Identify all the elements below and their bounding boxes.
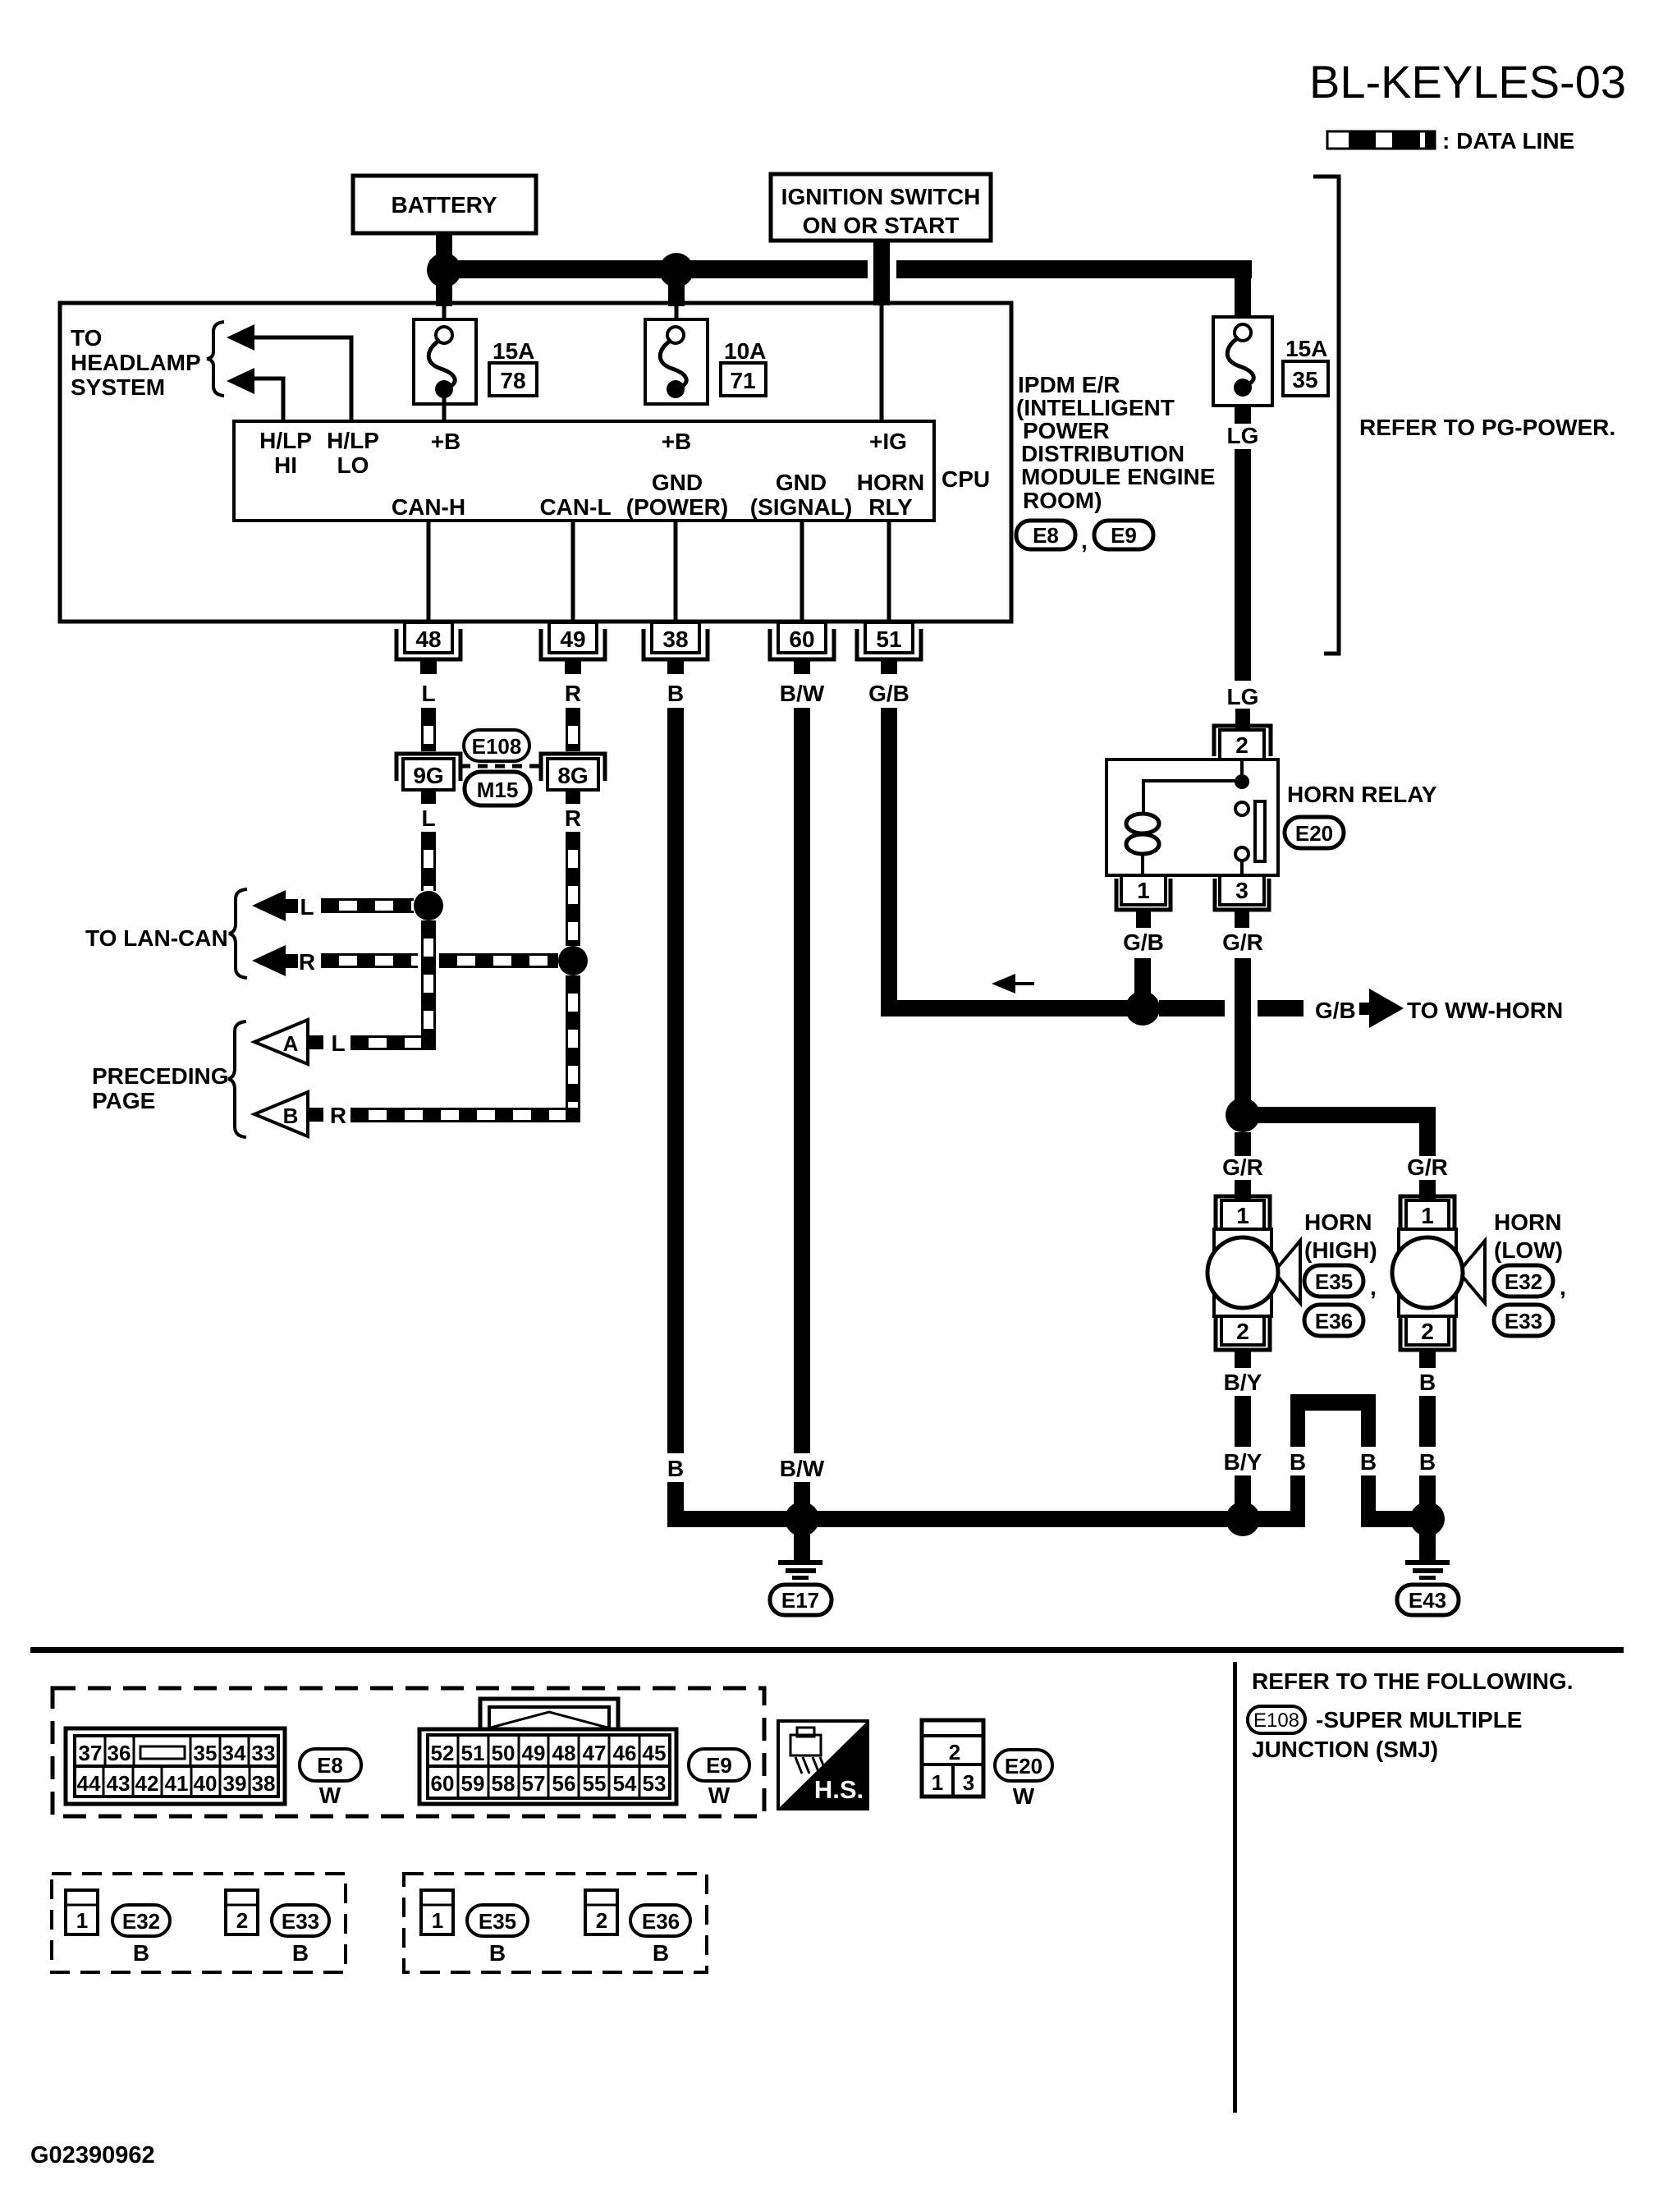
svg-text:36: 36 <box>108 1741 131 1765</box>
wire: H/LP HI lead <box>254 379 283 421</box>
svg-text:H/LP: H/LP <box>327 428 379 453</box>
wire: ignition switch stub <box>873 239 890 305</box>
wire: fuse 78 top lead <box>442 305 447 322</box>
svg-text:G/R: G/R <box>1222 1154 1263 1180</box>
svg-text:HORN: HORN <box>857 470 924 495</box>
connector face E9 <box>419 1699 676 1804</box>
wire: LG down to relay <box>1235 449 1251 681</box>
wire: CAN-H lead inside box <box>427 521 431 622</box>
svg-text:PRECEDING: PRECEDING <box>92 1063 228 1089</box>
connector oval E32 <box>1494 1265 1566 1300</box>
pin 38 connector <box>644 622 708 674</box>
svg-text:2: 2 <box>1236 1319 1249 1344</box>
svg-text:43: 43 <box>107 1771 131 1796</box>
junction dot at fuse 71 feed <box>659 253 694 287</box>
connector 8G <box>541 754 605 804</box>
svg-text:B: B <box>667 681 684 706</box>
svg-text:B: B <box>292 1940 309 1966</box>
label SUPER MULTIPLE JUNCTION <box>1252 1707 1522 1762</box>
svg-text:B/Y: B/Y <box>1224 1370 1262 1395</box>
svg-text:R: R <box>299 949 315 975</box>
fuse 15A 78 <box>414 319 476 404</box>
separator rule <box>30 1647 1624 1653</box>
label PRECEDING PAGE <box>92 1063 228 1113</box>
connector face E36 pin 2 <box>585 1890 617 1934</box>
svg-text:R: R <box>565 805 581 831</box>
svg-text:(INTELLIGENT: (INTELLIGENT <box>1016 395 1175 420</box>
connector oval E20 <box>1285 817 1344 848</box>
svg-text:2: 2 <box>1235 732 1249 758</box>
connector oval E33 (face) <box>272 1905 329 1966</box>
svg-text:REFER TO THE FOLLOWING.: REFER TO THE FOLLOWING. <box>1252 1668 1573 1694</box>
svg-text:B/Y: B/Y <box>1224 1449 1262 1475</box>
svg-text:W: W <box>708 1783 731 1808</box>
dashed SMJ link <box>460 764 545 769</box>
wire: main power bus horizontal <box>444 260 1252 278</box>
svg-text:E20: E20 <box>1295 821 1333 846</box>
wire: power bus corner down to fuse 35 <box>1235 260 1251 319</box>
wire: G/B toward WW-HORN segment 1 <box>1159 1000 1225 1017</box>
connector oval E33 <box>1494 1305 1553 1336</box>
connector oval E108 (note) <box>1248 1706 1305 1733</box>
junction dot G/B <box>1125 991 1160 1026</box>
wire: data line B-R <box>351 1109 569 1122</box>
svg-text:3: 3 <box>963 1770 974 1795</box>
svg-text:E108: E108 <box>1253 1709 1299 1732</box>
wire: GND POWER lead inside box <box>674 521 678 622</box>
pin 51 connector <box>857 622 921 674</box>
svg-text:1: 1 <box>1137 878 1150 903</box>
CPU inner box <box>234 421 934 521</box>
relay internal: common lead and dot <box>1143 760 1249 814</box>
svg-text:+IG: +IG <box>869 429 907 454</box>
svg-text:DISTRIBUTION: DISTRIBUTION <box>1021 441 1184 466</box>
svg-text:49: 49 <box>560 626 585 652</box>
svg-text:R: R <box>330 1103 346 1128</box>
connector triangle B <box>254 1092 323 1136</box>
connector oval E35 <box>1304 1265 1377 1300</box>
relay pin 2 connector <box>1214 726 1271 760</box>
svg-text:CAN-H: CAN-H <box>392 494 465 520</box>
svg-text:54: 54 <box>613 1771 637 1796</box>
arrow to LAN-CAN L <box>252 890 298 921</box>
svg-text:56: 56 <box>552 1771 576 1796</box>
svg-text:60: 60 <box>789 626 814 652</box>
svg-text:BATTERY: BATTERY <box>391 192 497 218</box>
connector oval E8 (face) <box>300 1749 361 1808</box>
value box 78 <box>489 363 537 396</box>
connector face E8 <box>66 1728 285 1804</box>
svg-text:49: 49 <box>522 1741 546 1765</box>
svg-text:CPU: CPU <box>942 466 990 492</box>
wire: CAN-H data segment below junction <box>423 920 435 1049</box>
H.S. view logo <box>778 1721 868 1809</box>
svg-text:B/W: B/W <box>780 1456 825 1481</box>
arrow to headlamp (upper) <box>227 324 254 351</box>
brace TO LAN-CAN <box>229 889 247 978</box>
arrow to WW-HORN <box>1359 989 1404 1028</box>
wire: B corner segment <box>667 1482 684 1527</box>
wire: data line L to junction <box>321 900 414 912</box>
svg-text:(LOW): (LOW) <box>1494 1237 1563 1263</box>
wire: LG stub into relay pin 2 <box>1235 709 1250 730</box>
svg-text:HI: HI <box>274 452 297 478</box>
svg-text:B: B <box>1419 1449 1436 1475</box>
svg-text:44: 44 <box>77 1771 101 1796</box>
connector oval E36 (face) <box>630 1905 690 1966</box>
IPDM E/R outer box <box>60 303 1011 622</box>
svg-text:+B: +B <box>662 429 692 454</box>
wire: G/R branch horizontal <box>1235 1107 1436 1123</box>
connector oval E20 (face) <box>995 1750 1052 1809</box>
pin 49 connector <box>541 622 605 674</box>
connector 9G <box>396 754 460 804</box>
svg-text:59: 59 <box>461 1771 485 1796</box>
svg-text:E9: E9 <box>706 1753 732 1778</box>
svg-text:B: B <box>1419 1370 1436 1395</box>
relay coil <box>1126 814 1159 875</box>
wire: G/B horizontal to junction <box>881 1000 1143 1017</box>
svg-text:58: 58 <box>492 1771 515 1796</box>
svg-text:,: , <box>1370 1274 1377 1300</box>
arrow to headlamp (lower) <box>227 368 254 394</box>
pin 48 connector <box>396 622 460 674</box>
svg-text:E17: E17 <box>781 1588 819 1613</box>
label HORN (LOW) <box>1494 1209 1563 1263</box>
wire: fuse 35 output stub <box>1235 406 1251 424</box>
svg-text:E108: E108 <box>472 734 522 759</box>
ground E43 <box>1397 1527 1459 1615</box>
svg-text:15A: 15A <box>1285 336 1327 361</box>
corner block CAN-H <box>421 1035 436 1050</box>
junction dot B/W ground <box>785 1502 819 1536</box>
svg-text:35: 35 <box>1292 367 1317 392</box>
svg-text:1: 1 <box>432 1908 443 1933</box>
svg-text:G/B: G/B <box>1123 929 1164 955</box>
svg-text:G/R: G/R <box>1222 929 1263 955</box>
svg-text:ROOM): ROOM) <box>1023 488 1102 513</box>
dashed box E35/E36 <box>404 1874 707 1972</box>
svg-text:2: 2 <box>236 1908 248 1933</box>
brace PRECEDING PAGE <box>228 1021 246 1137</box>
svg-text:HEADLAMP: HEADLAMP <box>71 350 201 375</box>
svg-text:M15: M15 <box>477 778 519 802</box>
horn low body <box>1392 1229 1485 1316</box>
wire: ignition thin lead to +IG <box>880 305 884 421</box>
wire: G/B from pin 51 down <box>881 708 897 1017</box>
junction dot CAN-L <box>558 946 588 975</box>
svg-text:W: W <box>1013 1783 1035 1809</box>
svg-text:1: 1 <box>76 1908 88 1933</box>
svg-text:E32: E32 <box>1505 1269 1542 1294</box>
connector face E35 pin 1 <box>421 1890 453 1934</box>
pin label HORN RLY <box>857 470 924 520</box>
svg-text:(POWER): (POWER) <box>626 494 728 520</box>
horn high pin 1 connector <box>1216 1196 1270 1229</box>
wire: B from pin 38 down <box>667 708 684 1453</box>
wire: data line R segment 2 <box>439 955 558 967</box>
wire: G/R down to branch dot <box>1235 958 1251 1107</box>
wire: HORN RLY lead inside box <box>887 521 891 622</box>
svg-text:B: B <box>653 1940 669 1966</box>
svg-text:E36: E36 <box>1315 1309 1353 1333</box>
svg-text:37: 37 <box>79 1741 103 1765</box>
value box 35 <box>1283 361 1328 396</box>
horn high body <box>1207 1229 1300 1316</box>
svg-text:-SUPER MULTIPLE: -SUPER MULTIPLE <box>1316 1707 1522 1732</box>
pin label GND (SIGNAL) <box>750 470 852 520</box>
svg-text:B: B <box>1360 1449 1377 1475</box>
svg-text:G/R: G/R <box>1407 1154 1448 1180</box>
svg-text:SYSTEM: SYSTEM <box>71 374 165 400</box>
svg-text:ON OR START: ON OR START <box>803 213 960 238</box>
pin 60 connector <box>770 622 834 674</box>
junction dot CAN-H <box>414 891 443 920</box>
horn low pin 2 connector <box>1400 1316 1455 1368</box>
svg-text:E20: E20 <box>1005 1754 1042 1778</box>
wire: CAN-L data segment below junction <box>567 975 580 1122</box>
svg-text:B/W: B/W <box>780 681 825 706</box>
pin label H/LP HI <box>259 428 312 478</box>
svg-text:55: 55 <box>583 1771 607 1796</box>
ground E17 <box>770 1527 832 1615</box>
svg-text:B: B <box>1290 1449 1306 1475</box>
wire: CAN-L data segment to junction <box>567 832 580 946</box>
svg-text:IPDM E/R: IPDM E/R <box>1018 372 1120 397</box>
svg-text:RLY: RLY <box>868 494 913 520</box>
wire: fuse 71 top lead <box>675 305 679 322</box>
svg-text:BL-KEYLES-03: BL-KEYLES-03 <box>1309 56 1626 108</box>
connector oval M15 <box>465 772 530 805</box>
wire: G/R right corner down <box>1419 1123 1436 1156</box>
svg-text:POWER: POWER <box>1023 418 1110 443</box>
svg-text:48: 48 <box>415 626 441 652</box>
legend: data line sample <box>1327 128 1574 154</box>
label TO HEADLAMP SYSTEM <box>71 325 201 400</box>
wire: horn high B/Y to bus <box>1235 1475 1251 1515</box>
svg-text:E33: E33 <box>1505 1309 1542 1333</box>
svg-text:E8: E8 <box>1033 523 1059 548</box>
svg-text:R: R <box>565 681 581 706</box>
svg-text:38: 38 <box>252 1771 276 1796</box>
wire: ground bus horizontal <box>667 1511 1436 1527</box>
svg-text:PAGE: PAGE <box>92 1088 155 1113</box>
svg-text:CAN-L: CAN-L <box>539 494 611 520</box>
connector face E20 <box>922 1720 983 1797</box>
svg-text:40: 40 <box>194 1771 218 1796</box>
wire: data line R segment 1 <box>321 955 418 967</box>
connector face E33 pin 2 <box>226 1890 258 1934</box>
svg-text:45: 45 <box>643 1741 667 1765</box>
dashed box E32/E33 <box>52 1874 346 1972</box>
svg-text:H/LP: H/LP <box>259 428 312 453</box>
wire: fuse 78 bottom lead <box>442 397 447 421</box>
svg-text:B: B <box>667 1456 684 1481</box>
bracket refer to PG-POWER <box>1313 177 1339 654</box>
svg-text:2: 2 <box>596 1908 607 1933</box>
connector oval E108 <box>464 730 529 761</box>
wire: B/W from pin 60 down <box>794 708 810 1453</box>
wire: fuse 71 feed stub <box>668 278 685 306</box>
svg-text:+B: +B <box>431 429 461 454</box>
svg-text:LG: LG <box>1227 423 1259 448</box>
connector oval E8 (annotation) <box>1016 521 1088 553</box>
connector oval E35 (face) <box>467 1905 528 1966</box>
wire: bridge hop <box>1290 1394 1376 1515</box>
svg-text:IGNITION SWITCH: IGNITION SWITCH <box>781 184 981 209</box>
wire: data line A-L <box>351 1037 424 1049</box>
arrow to LAN-CAN R <box>252 945 298 976</box>
svg-text:B: B <box>133 1940 149 1966</box>
svg-text:A: A <box>283 1031 299 1056</box>
svg-text:L: L <box>331 1030 345 1056</box>
wire: GND SIGNAL lead inside box <box>800 521 804 622</box>
svg-text:41: 41 <box>165 1771 189 1796</box>
svg-text:B: B <box>489 1940 506 1966</box>
svg-text:MODULE ENGINE: MODULE ENGINE <box>1021 464 1215 489</box>
svg-text:JUNCTION (SMJ): JUNCTION (SMJ) <box>1252 1737 1438 1762</box>
connector oval E36 <box>1304 1305 1363 1336</box>
svg-text:1: 1 <box>932 1770 943 1795</box>
value box 71 <box>721 363 766 396</box>
svg-text:E8: E8 <box>317 1753 343 1778</box>
svg-text:51: 51 <box>461 1741 485 1765</box>
wire: relay pin1 G/B to junction <box>1134 958 1151 1008</box>
ignition switch box <box>771 174 991 241</box>
vertical divider <box>1233 1662 1237 2113</box>
svg-text:HORN: HORN <box>1494 1209 1561 1235</box>
wire: CAN-L data segment to 8G <box>567 708 580 751</box>
connector triangle A <box>254 1020 323 1064</box>
svg-text:42: 42 <box>135 1771 159 1796</box>
wire: B/W lower segment <box>794 1482 810 1507</box>
wire: fuse 78 feed stub <box>436 278 452 306</box>
wire: G/R into horn low <box>1419 1180 1436 1200</box>
horn high pin 2 connector <box>1216 1316 1270 1368</box>
dashed box E8/E9 <box>53 1688 764 1816</box>
svg-text:1: 1 <box>1236 1203 1249 1228</box>
svg-text:L: L <box>300 894 314 920</box>
label IPDM E/R block <box>1016 372 1215 513</box>
svg-text:G/B: G/B <box>868 681 909 706</box>
connector oval E9 (annotation) <box>1094 521 1153 549</box>
svg-text:53: 53 <box>643 1771 667 1796</box>
svg-text:35: 35 <box>194 1741 218 1765</box>
svg-text:34: 34 <box>222 1741 246 1765</box>
junction dot B bus <box>1410 1502 1445 1536</box>
svg-text:HORN: HORN <box>1304 1209 1372 1235</box>
svg-text:,: , <box>1081 528 1088 553</box>
svg-text:46: 46 <box>613 1741 637 1765</box>
horn relay box E20 <box>1106 760 1278 875</box>
wire: CAN-H data segment to junction <box>423 832 435 891</box>
wire: CAN-L lead inside box <box>571 521 575 622</box>
wire: horn low B to bus <box>1419 1475 1436 1515</box>
svg-text:10A: 10A <box>724 338 766 364</box>
svg-text:39: 39 <box>223 1771 247 1796</box>
wire: H/LP LO lead <box>254 337 351 421</box>
svg-text:L: L <box>421 681 435 706</box>
svg-text:HORN RELAY: HORN RELAY <box>1287 782 1437 807</box>
wire: G/B toward WW-HORN segment 2 <box>1258 1000 1303 1017</box>
svg-text:33: 33 <box>252 1741 276 1765</box>
junction dot G/R branch <box>1226 1098 1260 1132</box>
svg-text:E36: E36 <box>642 1909 680 1934</box>
corner block CAN-L <box>566 1108 580 1122</box>
wire: CAN-H data segment to 9G <box>423 708 435 751</box>
svg-text:TO LAN-CAN: TO LAN-CAN <box>85 925 228 951</box>
svg-text:E32: E32 <box>122 1909 160 1934</box>
junction dot at battery feed <box>427 253 461 287</box>
wire: horn low B segment <box>1419 1396 1436 1447</box>
relay contact <box>1235 801 1265 875</box>
connector face E32 pin 1 <box>66 1890 98 1934</box>
relay pin 3 connector <box>1215 875 1269 928</box>
svg-text:47: 47 <box>583 1741 607 1765</box>
svg-text:: DATA LINE: : DATA LINE <box>1442 128 1574 154</box>
svg-text:B: B <box>283 1104 299 1128</box>
wire: battery stub <box>436 232 452 264</box>
svg-text:GND: GND <box>776 470 827 495</box>
svg-text:48: 48 <box>552 1741 576 1765</box>
horn low pin 1 connector <box>1400 1196 1455 1229</box>
svg-text:78: 78 <box>500 368 525 393</box>
svg-text:51: 51 <box>876 626 901 652</box>
svg-text:9G: 9G <box>413 763 443 788</box>
svg-text:E9: E9 <box>1111 523 1137 548</box>
svg-text:57: 57 <box>522 1771 546 1796</box>
svg-text:G/B: G/B <box>1315 998 1356 1023</box>
connector oval E32 (face) <box>112 1905 170 1966</box>
svg-text:REFER TO PG-POWER.: REFER TO PG-POWER. <box>1359 415 1615 440</box>
pin label H/LP LO <box>327 428 379 478</box>
svg-text:L: L <box>421 805 435 831</box>
svg-text:GND: GND <box>652 470 703 495</box>
brace headlamp <box>207 322 224 396</box>
svg-text:E35: E35 <box>1315 1269 1353 1294</box>
svg-text:W: W <box>319 1783 341 1808</box>
svg-text:E33: E33 <box>282 1909 319 1934</box>
svg-text:(SIGNAL): (SIGNAL) <box>750 494 852 520</box>
svg-text:38: 38 <box>662 626 688 652</box>
svg-text:TO: TO <box>71 325 102 351</box>
relay pin 1 connector <box>1116 875 1171 928</box>
title BL-KEYLES-03 <box>1309 56 1626 108</box>
battery box <box>353 176 536 233</box>
svg-text:H.S.: H.S. <box>814 1775 864 1804</box>
svg-text:(HIGH): (HIGH) <box>1304 1237 1377 1263</box>
wire: horn high B/Y segment <box>1235 1396 1251 1447</box>
connector oval E9 (face) <box>689 1749 749 1808</box>
svg-text:2: 2 <box>1421 1319 1434 1344</box>
small arrow left on G/B <box>992 974 1034 994</box>
svg-text:G02390962: G02390962 <box>30 2142 155 2168</box>
svg-text:8G: 8G <box>557 763 588 788</box>
pin label GND (POWER) <box>626 470 728 520</box>
label HORN (HIGH) <box>1304 1209 1377 1263</box>
svg-text:2: 2 <box>949 1740 960 1765</box>
junction dot B/Y bus <box>1226 1502 1260 1536</box>
fuse 10A 71 <box>645 319 708 404</box>
svg-text:E35: E35 <box>479 1909 516 1934</box>
svg-text:LG: LG <box>1227 684 1259 709</box>
svg-text:,: , <box>1560 1274 1566 1300</box>
svg-text:52: 52 <box>431 1741 455 1765</box>
svg-text:LO: LO <box>337 452 369 478</box>
svg-text:50: 50 <box>492 1741 515 1765</box>
svg-text:3: 3 <box>1235 878 1249 903</box>
svg-text:60: 60 <box>431 1771 455 1796</box>
